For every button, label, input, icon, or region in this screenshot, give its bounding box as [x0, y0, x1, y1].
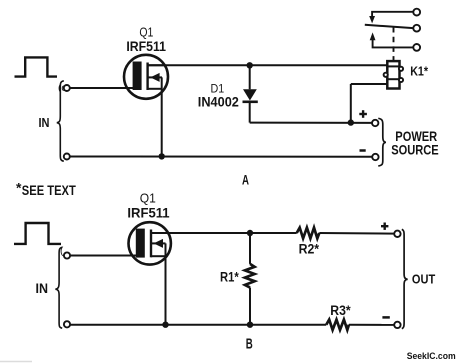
input pulse symbol (circuit B)	[14, 223, 61, 244]
terminal IN+ (circuit A)	[64, 85, 70, 91]
transistor Q1 circuit B: body stub with arrow	[151, 242, 166, 244]
svg-text:IN: IN	[36, 281, 49, 296]
junction top rail / R1 (circuit B)	[247, 230, 253, 236]
svg-text:IN: IN	[39, 115, 50, 130]
relay K1 coil divider upper	[387, 65, 399, 67]
relay K1 bottom contact arrow (up)	[370, 32, 376, 40]
svg-text:B: B	[246, 336, 253, 352]
svg-text:IRF511: IRF511	[126, 39, 166, 54]
wire gate (circuit B)	[70, 255, 136, 257]
svg-text:A: A	[242, 172, 249, 187]
wire diode branch lower	[249, 102, 251, 123]
transistor Q1 circuit B: gate bar	[136, 229, 145, 258]
junction source/bottom-rail (circuit A)	[159, 153, 165, 159]
relay K1 contact circle top	[413, 9, 420, 16]
svg-text:IN4002: IN4002	[198, 93, 239, 109]
transistor Q1 circuit B: channel line	[150, 230, 152, 258]
wire gate (circuit A)	[70, 87, 133, 89]
wire top rail / drain to relay coil (circuit A)	[148, 64, 388, 66]
svg-text:SEE TEXT: SEE TEXT	[22, 182, 76, 198]
relay K1 coil bump right lower	[399, 78, 403, 82]
svg-text:K1*: K1*	[410, 64, 429, 79]
junction bottom rail / R1 (circuit B)	[247, 322, 253, 328]
resistor R1 zigzag	[245, 264, 255, 288]
relay K1 coil bump left	[384, 73, 388, 77]
wire bottom rail left of R3 (circuit B)	[70, 324, 326, 326]
resistor R1 lower lead	[249, 288, 251, 325]
diode D1 triangle	[243, 89, 257, 100]
junction top rail / diode (node at D1 anode)	[247, 62, 253, 68]
transistor Q1 circuit A: gate bar	[133, 62, 142, 91]
terminal IN- (circuit B)	[64, 321, 70, 327]
svg-text:SeekIC.com: SeekIC.com	[407, 351, 456, 362]
terminal IN- (circuit A)	[64, 154, 70, 160]
minus sign (circuit A)	[360, 149, 366, 152]
relay K1 bottom contact wire	[373, 40, 414, 47]
relay K1 top contact arrow (down)	[369, 16, 375, 23]
input pulse symbol (circuit A)	[15, 57, 58, 76]
svg-text:SOURCE: SOURCE	[391, 143, 439, 158]
relay K1 coil bump right upper	[399, 67, 403, 71]
relay K1 coil divider lower	[387, 78, 399, 80]
brace for IN (circuit A)	[57, 81, 64, 161]
brace for IN (circuit B)	[55, 247, 62, 328]
terminal minus POWER SOURCE	[372, 154, 378, 160]
svg-text:R2*: R2*	[299, 242, 320, 257]
transistor Q1 circuit B: drain stub	[151, 232, 168, 234]
transistor Q1 circuit A: source stub	[148, 88, 162, 90]
terminal plus OUT	[394, 231, 400, 237]
wire diode branch upper	[249, 65, 251, 89]
resistor R1 upper lead	[249, 233, 251, 264]
wire junction up to coil (circuit A)	[350, 84, 352, 123]
relay K1 contact circle bottom	[413, 44, 420, 51]
svg-text:Q1: Q1	[139, 25, 153, 40]
wire to coil lower terminal (circuit A)	[351, 83, 388, 85]
junction source/bottom-rail (circuit B)	[162, 322, 168, 328]
transistor Q1 circuit A: body circle	[124, 55, 168, 99]
wire source down (circuit A)	[161, 77, 163, 156]
wire top rail right of R2 (circuit B)	[319, 232, 394, 235]
brace OUT	[402, 229, 408, 328]
bottom-left faint scan line	[0, 361, 32, 363]
terminal minus OUT	[394, 322, 400, 328]
terminal plus POWER SOURCE	[372, 120, 378, 126]
junction plus node (circuit A)	[348, 119, 354, 125]
minus sign (circuit B)	[382, 316, 389, 319]
brace POWER SOURCE	[378, 118, 386, 166]
relay K1 dashed actuator link	[393, 27, 395, 61]
relay K1 top contact wire	[372, 12, 413, 17]
transistor Q1 circuit B: body circle	[129, 222, 171, 264]
diode D1 cathode bar	[243, 101, 258, 104]
svg-text:IRF511: IRF511	[127, 204, 169, 220]
transistor Q1 circuit A: channel line	[146, 63, 148, 91]
terminal IN+ (circuit B)	[64, 252, 70, 258]
resistor R3 zigzag	[326, 320, 349, 330]
resistor R2 zigzag	[297, 228, 320, 239]
wire diode to plus terminal (circuit A)	[250, 122, 372, 124]
svg-text:Q1: Q1	[140, 190, 156, 205]
plus sign (circuit A)	[359, 113, 367, 115]
wire bottom rail right of R3 (circuit B)	[349, 324, 394, 326]
transistor Q1 circuit B: source stub	[151, 255, 166, 257]
wire top rail left of R2 (circuit B)	[151, 232, 297, 234]
transistor Q1 circuit A: body stub with arrow	[148, 76, 162, 78]
transistor Q1 circuit A: drain stub	[148, 64, 165, 66]
relay K1 contact circle middle	[413, 25, 420, 32]
plus sign (circuit B)	[381, 225, 388, 227]
svg-text:OUT: OUT	[412, 271, 435, 286]
svg-text:R1*: R1*	[220, 270, 239, 285]
svg-text:R3*: R3*	[330, 303, 351, 318]
wire source down (circuit B)	[165, 243, 167, 324]
relay K1 armature	[365, 25, 414, 28]
wire bottom rail (circuit A)	[70, 156, 373, 158]
relay K1 coil body	[387, 61, 399, 88]
